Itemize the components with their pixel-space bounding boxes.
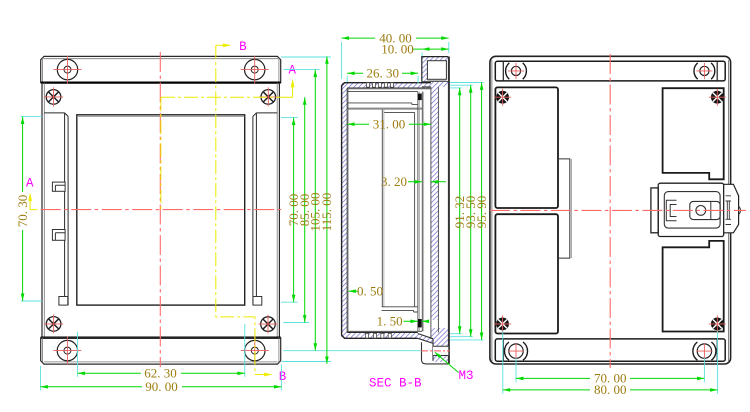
section line A-A yellow <box>30 82 293 210</box>
dim 115.00 <box>326 56 328 364</box>
gasket top <box>418 94 422 101</box>
svg-text:115. 00: 115. 00 <box>319 193 334 232</box>
screw tr <box>709 89 726 106</box>
left rail <box>44 113 68 305</box>
flange/body thick line bottom <box>41 337 281 339</box>
flange/body thick line top <box>41 81 281 83</box>
svg-text:70. 30: 70. 30 <box>15 195 30 228</box>
left wall hatch <box>342 83 348 339</box>
foot hatch lower <box>433 356 448 363</box>
hook notch <box>427 61 446 80</box>
interior horizontal lines bottom <box>347 307 422 332</box>
bottom wall hatch <box>342 333 418 339</box>
DIN clip pill <box>690 201 720 219</box>
left rail clip 1 <box>52 182 65 191</box>
bottom band arcs <box>504 342 715 360</box>
dim 1.50 <box>404 320 429 322</box>
top wall hatch <box>342 83 431 88</box>
bottom flange band <box>495 339 725 361</box>
right panel lower <box>663 241 724 332</box>
svg-text:31. 00: 31. 00 <box>373 116 406 131</box>
screw br <box>709 315 726 332</box>
top flange inner lines <box>43 58 279 82</box>
top flange outline <box>41 56 281 82</box>
left panel bump strip <box>558 159 570 258</box>
svg-text:3. 20: 3. 20 <box>381 174 407 189</box>
svg-text:0. 50: 0. 50 <box>357 283 383 298</box>
dim 85.00 <box>304 97 306 322</box>
ext lines cyan right view <box>503 331 718 394</box>
hook top bar hatch <box>422 57 449 61</box>
dim 0.50 <box>348 290 357 292</box>
svg-text:B: B <box>279 370 287 384</box>
ext lines cyan left view <box>21 57 421 390</box>
left panel upper <box>495 87 558 208</box>
top band arcs <box>506 63 715 79</box>
dim 26.30 <box>347 72 418 74</box>
svg-text:SEC B-B: SEC B-B <box>369 377 422 391</box>
left rail clip 2 <box>52 230 65 241</box>
flange band lines <box>422 82 449 87</box>
DIN clip body <box>658 183 724 236</box>
dim 95.90 <box>481 83 483 340</box>
dim 91.32 <box>459 88 461 334</box>
top flange band <box>495 61 725 81</box>
dim 80.00 right view <box>503 389 718 391</box>
centerline vertical red <box>159 52 161 370</box>
svg-text:26. 30: 26. 30 <box>366 66 399 81</box>
plate outer edge <box>448 57 449 364</box>
svg-text:90. 00: 90. 00 <box>145 379 178 394</box>
bottom flange hole left <box>509 344 523 358</box>
hook outline <box>422 57 449 82</box>
DIN clip anchor cross <box>726 196 732 225</box>
centerline vertical red <box>609 54 611 368</box>
hole top-right <box>245 59 265 79</box>
plate bar edges <box>431 87 439 339</box>
dim 70.00 right view <box>516 377 704 379</box>
bottom flange hole right <box>697 344 711 358</box>
svg-text:80. 00: 80. 00 <box>594 382 627 397</box>
foot hatch upper <box>431 328 448 346</box>
outer case <box>490 56 731 364</box>
interior vertical lines <box>382 110 414 307</box>
DIN clip left bar <box>651 188 658 233</box>
centerline horizontal red <box>490 209 746 211</box>
screw bl <box>494 315 511 332</box>
svg-text:M3: M3 <box>459 369 474 383</box>
left panel lower <box>495 214 558 333</box>
inner panel <box>77 115 245 305</box>
left rail bottom tab <box>59 297 68 306</box>
ext lines cyan mid view <box>342 42 484 340</box>
screw top-left <box>44 87 63 106</box>
hole bottom-right <box>245 340 265 360</box>
dim 40.00 <box>342 37 449 39</box>
svg-text:A: A <box>26 177 34 191</box>
svg-text:B: B <box>239 40 247 54</box>
dim 90.00 <box>41 386 282 388</box>
interior horizontal lines top <box>347 92 422 109</box>
body inner side lines <box>44 83 277 338</box>
dim 70.00 <box>293 118 295 303</box>
gasket bottom <box>418 319 422 327</box>
dim 70.30 <box>22 117 24 301</box>
centerline horizontal red <box>41 209 282 211</box>
box outline <box>342 83 431 339</box>
svg-text:95. 90: 95. 90 <box>474 196 489 229</box>
dim 93.50 <box>470 85 472 337</box>
foot slope hatch <box>418 334 433 344</box>
DIN clip C detail <box>666 200 676 221</box>
right rail bottom tab <box>253 297 262 306</box>
panel front lines <box>418 92 422 332</box>
top flange hole left <box>511 66 520 75</box>
flange top band hatch <box>422 82 449 87</box>
hole bottom-left <box>57 340 77 360</box>
bottom flange inner lines <box>43 338 279 363</box>
body side edges <box>42 83 279 338</box>
right rail <box>253 113 277 305</box>
foot outline <box>418 334 449 364</box>
screw tl <box>494 89 511 106</box>
screw top-right <box>259 87 278 106</box>
dim 105.00 <box>314 70 316 351</box>
section line B-B yellow <box>216 45 264 374</box>
M3 leader <box>435 353 459 373</box>
wall inner lines <box>347 88 431 333</box>
svg-text:A: A <box>289 64 297 78</box>
top teeth <box>366 83 393 88</box>
hook vertical bar hatch <box>422 57 428 82</box>
screw bottom-left <box>44 314 63 333</box>
M3 hole band <box>433 346 448 355</box>
hole top-left <box>57 59 77 79</box>
svg-text:1. 50: 1. 50 <box>377 314 403 329</box>
screw bottom-right <box>259 315 278 334</box>
dim 3.20 <box>408 181 446 183</box>
svg-text:10. 00: 10. 00 <box>381 41 414 56</box>
dim 31.00 <box>347 123 431 125</box>
dim 10.00 <box>413 48 449 50</box>
bottom flange outline <box>41 338 281 364</box>
M3 centerline red <box>421 350 450 352</box>
top flange hole right <box>700 66 709 75</box>
bottom teeth <box>366 333 392 338</box>
plate wall hatch bar <box>431 82 439 320</box>
DIN clip inner frame <box>664 192 720 229</box>
DIN clip right tab <box>724 184 739 233</box>
right panel upper <box>663 88 724 179</box>
dim 62.30 <box>78 372 245 374</box>
